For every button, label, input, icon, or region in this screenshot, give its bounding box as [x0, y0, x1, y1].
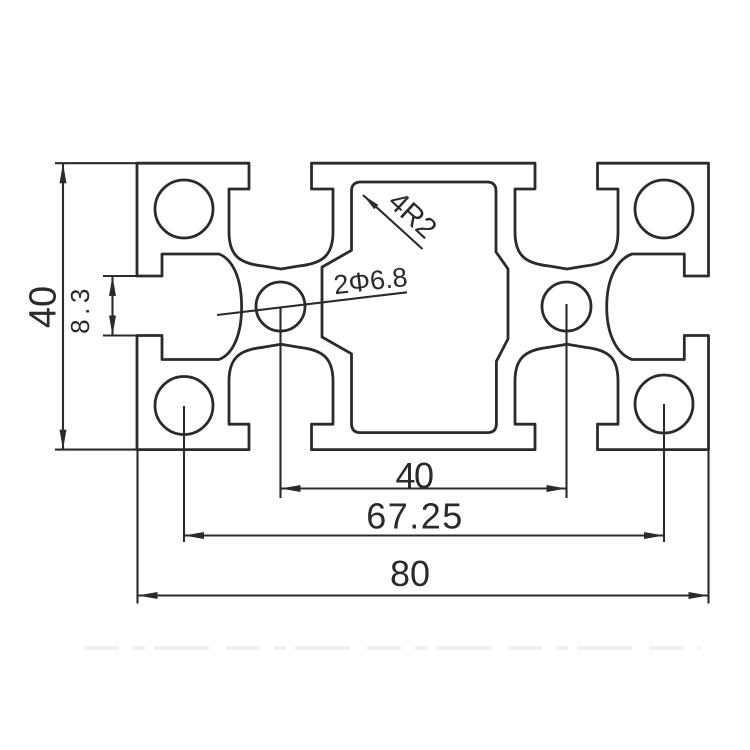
dim 80: dimension line [138, 594, 709, 596]
svg-text:67.25: 67.25 [366, 496, 464, 537]
svg-text:40: 40 [23, 286, 65, 328]
arrow down (dim 8.3 bottom) [109, 316, 116, 336]
center hole left centerline [279, 307, 281, 498]
faint artifact streak [85, 646, 700, 650]
dim 67.25: dimension line [184, 534, 664, 536]
dim 40 left: dimension line [62, 163, 64, 449]
arrow up (dim 8.3 top) [109, 276, 116, 296]
corner hole bottom-right centerline [663, 404, 665, 542]
corner hole top-right [635, 180, 693, 238]
dim 8.3: dimension line [111, 277, 113, 335]
arrow left (dim 40 bottom) [281, 485, 301, 492]
arrow down (dim 40 left bottom) [60, 430, 67, 450]
center hole right [542, 282, 591, 331]
corner hole bottom-left centerline [183, 406, 185, 542]
dim 8.3: extension lines [103, 275, 137, 277]
dim 40 bottom: dimension line [281, 487, 567, 489]
arrow right (dim 80) [689, 592, 709, 599]
arrow right (dim 40 bottom) [547, 485, 567, 492]
central cavity [322, 182, 508, 433]
arrow 4R2 (points up-left) [363, 195, 378, 209]
svg-text:40: 40 [395, 455, 433, 496]
arrow left (dim 67.25) [184, 532, 204, 539]
svg-text:8.3: 8.3 [65, 284, 95, 334]
corner hole top-left [155, 180, 213, 238]
center hole right centerline [565, 304, 567, 498]
arrow up (dim 40 left top) [60, 163, 67, 183]
corner hole bottom-right [635, 375, 693, 433]
center hole left [256, 282, 305, 331]
leader 4R2 [363, 195, 423, 249]
dim 40 left: extension lines [55, 162, 137, 164]
svg-text:80: 80 [390, 553, 430, 594]
corner hole bottom-left [155, 377, 213, 435]
arrow right (dim 67.25) [644, 532, 664, 539]
leader 2phi6.8 [217, 292, 407, 315]
svg-text:4R2: 4R2 [382, 186, 443, 246]
arrow left (dim 80) [138, 592, 158, 599]
profile outer contour [137, 163, 709, 449]
dim 80: extension lines [136, 450, 138, 604]
